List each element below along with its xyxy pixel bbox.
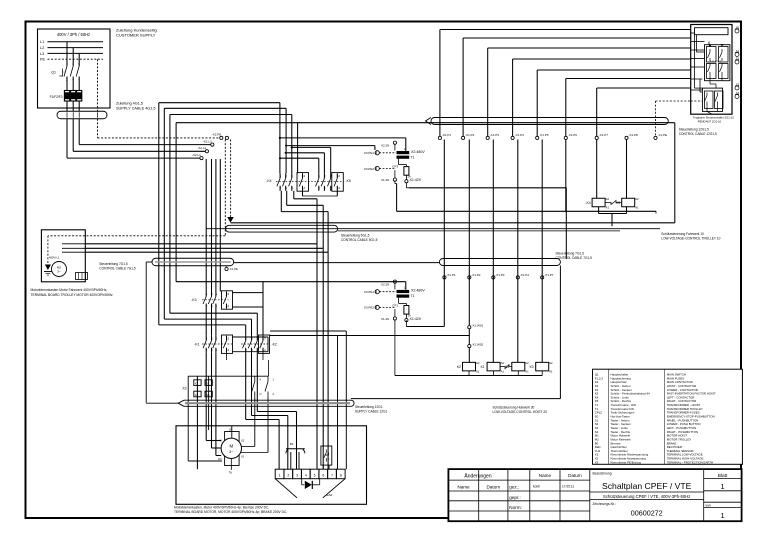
svg-text:-X1.P1: -X1.P1: [442, 133, 452, 137]
svg-text:2N: 2N: [229, 429, 232, 432]
svg-text:X3.PE1: X3.PE1: [364, 151, 375, 155]
svg-text:SUPPLY CABLE 12G1: SUPPLY CABLE 12G1: [355, 410, 388, 414]
svg-text:X3.PE2: X3.PE2: [364, 167, 375, 171]
svg-text:-K1: -K1: [194, 342, 199, 346]
svg-text:TN: TN: [229, 472, 233, 475]
svg-text:6: 6: [322, 473, 324, 477]
svg-text:CUSTOMER SUPPLY: CUSTOMER SUPPLY: [116, 33, 156, 38]
svg-text:SUPPLY CABLE 4G1,5: SUPPLY CABLE 4G1,5: [116, 107, 156, 111]
svg-text:400V / 3Ph / 50Hz: 400V / 3Ph / 50Hz: [57, 32, 90, 37]
svg-text:gez.:: gez.:: [509, 485, 519, 490]
svg-text:CONTROL CABLE 5G1,5: CONTROL CABLE 5G1,5: [341, 238, 378, 242]
svg-text:-X1.P6: -X1.P6: [568, 133, 578, 137]
svg-text:TERMINAL BOARD TROLLEY MOTOR: TERMINAL BOARD TROLLEY MOTOR 400V/3Ph/50…: [31, 293, 113, 297]
svg-text:Datum: Datum: [568, 473, 582, 478]
svg-text:-X1.P4: -X1.P4: [515, 133, 525, 137]
svg-text:17.05.11: 17.05.11: [562, 485, 574, 489]
svg-text:1: 1: [721, 482, 725, 491]
svg-text:-X1.W02: -X1.W02: [472, 342, 484, 346]
svg-text:von: von: [706, 504, 711, 508]
svg-text:14: 14: [337, 186, 341, 190]
svg-text:CP3: CP3: [392, 165, 398, 169]
svg-text:Steuerleitung 12G1: Steuerleitung 12G1: [355, 405, 383, 409]
svg-text:-X1.PE: -X1.PE: [658, 133, 668, 137]
svg-text:-K3: -K3: [191, 298, 196, 302]
svg-text:1: 1: [279, 473, 281, 477]
svg-text:X3.PE1: X3.PE1: [364, 290, 375, 294]
svg-text:A1: A1: [525, 369, 529, 373]
svg-text:-K5: -K5: [346, 179, 351, 183]
svg-text:LOW-VOLTAGE-CONTROL HOIST 20: LOW-VOLTAGE-CONTROL HOIST 20: [493, 410, 548, 414]
svg-text:-X1.P2: -X1.P2: [471, 273, 481, 277]
svg-text:7: 7: [331, 473, 333, 477]
svg-text:Steuerleitung 7G1,5: Steuerleitung 7G1,5: [556, 252, 585, 256]
svg-text:CP1: CP1: [392, 303, 398, 307]
svg-text:X1.2N: X1.2N: [381, 178, 389, 182]
svg-text:Name: Name: [457, 484, 470, 489]
svg-text:X2:480V: X2:480V: [411, 289, 425, 293]
svg-text:K1: K1: [481, 365, 485, 369]
svg-text:Klemmleiste PE/Erdung: Klemmleiste PE/Erdung: [611, 460, 642, 464]
svg-text:L2: L2: [40, 46, 44, 50]
svg-text:3: 3: [296, 473, 298, 477]
svg-text:Zeichnungs-Nr.:: Zeichnungs-Nr.:: [593, 502, 616, 506]
svg-text:A1: A1: [635, 205, 639, 209]
svg-text:B1: B1: [290, 442, 294, 446]
svg-text:-EA0: -EA0: [326, 493, 333, 497]
svg-text:Schützsteuerung CPEF / VTE, 40: Schützsteuerung CPEF / VTE, 400V-3Ph-50H…: [603, 494, 690, 499]
svg-text:A2: A2: [635, 197, 639, 201]
svg-text:1A: 1A: [408, 314, 411, 318]
svg-text:13: 13: [302, 174, 306, 178]
svg-text:A1: A1: [501, 369, 505, 373]
svg-text:-X2.PE: -X2.PE: [212, 133, 222, 137]
svg-text:-X1.P7: -X1.P7: [599, 133, 609, 137]
svg-text:-X2.L3: -X2.L3: [203, 139, 212, 143]
svg-text:N: N: [260, 392, 262, 396]
svg-text:5: 5: [314, 473, 316, 477]
svg-text:14: 14: [226, 304, 230, 308]
svg-text:F1/F2/F3: F1/F2/F3: [50, 95, 63, 99]
svg-text:Bezeichnung: Bezeichnung: [593, 472, 612, 476]
svg-text:14: 14: [302, 186, 306, 190]
svg-text:A2: A2: [549, 361, 553, 365]
svg-text:X1:42V: X1:42V: [410, 178, 422, 182]
svg-text:Motorklemmkasten Motor Fahrwer: Motorklemmkasten Motor Fahrwerk 400V/3Ph…: [31, 288, 108, 292]
svg-text:-X1.PE: -X1.PE: [229, 267, 238, 271]
svg-text:00600272: 00600272: [631, 508, 663, 517]
svg-text:A2: A2: [501, 361, 505, 365]
svg-text:-X1.P4: -X1.P4: [520, 273, 530, 277]
svg-text:X2.2N: X2.2N: [381, 144, 389, 148]
svg-text:X3: X3: [595, 460, 599, 464]
svg-text:-X1.P7: -X1.P7: [544, 273, 554, 277]
svg-text:4: 4: [305, 473, 307, 477]
svg-text:T1: T1: [411, 294, 415, 298]
svg-text:TERMINAL - PROTECTION EARTH: TERMINAL - PROTECTION EARTH: [667, 460, 714, 464]
svg-text:Norm:: Norm:: [509, 505, 522, 510]
svg-text:A2: A2: [476, 361, 480, 365]
svg-text:-K4: -K4: [585, 201, 590, 205]
svg-text:X2.2N: X2.2N: [381, 282, 389, 286]
svg-text:3~: 3~: [229, 450, 234, 454]
svg-text:8: 8: [340, 473, 342, 477]
svg-text:A2: A2: [525, 361, 529, 365]
svg-text:Steuerleitung 5G1,5: Steuerleitung 5G1,5: [341, 233, 370, 237]
svg-text:konb: konb: [533, 485, 540, 489]
svg-text:Steuerleitung 7G1,5: Steuerleitung 7G1,5: [99, 262, 128, 266]
svg-text:Steuerleitung 12G1,5: Steuerleitung 12G1,5: [679, 128, 709, 132]
svg-text:LOW-VOLTAGE-CONTROL TROLLEY 10: LOW-VOLTAGE-CONTROL TROLLEY 10: [661, 236, 720, 240]
svg-text:M: M: [229, 444, 233, 449]
svg-text:3~: 3~: [57, 270, 61, 274]
svg-text:X1.2N: X1.2N: [381, 317, 389, 321]
svg-text:X1:42V: X1:42V: [410, 317, 422, 321]
svg-text:CONTROL CABLE 7G1,5: CONTROL CABLE 7G1,5: [99, 267, 136, 271]
svg-text:13: 13: [337, 174, 341, 178]
svg-text:A1: A1: [549, 369, 553, 373]
svg-text:PENDANT 2G1-10: PENDANT 2G1-10: [698, 120, 722, 124]
svg-text:L1: L1: [40, 40, 44, 44]
svg-text:X3: X3: [182, 387, 186, 391]
svg-text:TERMINAL BOARD MOTOR, MOTOR 40: TERMINAL BOARD MOTOR, MOTOR 400V/3Ph/50H…: [174, 510, 287, 514]
svg-text:-K4: -K4: [266, 179, 271, 183]
svg-text:Datum: Datum: [487, 484, 501, 489]
svg-text:A2: A2: [606, 197, 610, 201]
svg-text:-X1.P2: -X1.P2: [465, 133, 475, 137]
svg-text:Motorklemmkasten, Motor 400V/3: Motorklemmkasten, Motor 400V/3Ph/50Hz-4p…: [174, 505, 269, 509]
svg-text:X2:480V: X2:480V: [411, 150, 425, 154]
svg-text:Änderungen: Änderungen: [464, 473, 491, 480]
svg-text:14: 14: [226, 348, 230, 352]
svg-text:PE: PE: [40, 58, 46, 62]
svg-text:1: 1: [721, 511, 725, 520]
svg-text:Schaltplan CPEF / VTE: Schaltplan CPEF / VTE: [602, 481, 692, 491]
svg-text:-X1.W01: -X1.W01: [472, 324, 484, 328]
svg-text:Name: Name: [539, 473, 552, 478]
svg-text:-K2: -K2: [272, 342, 277, 346]
svg-text:13: 13: [226, 336, 230, 340]
svg-text:1A: 1A: [408, 175, 411, 179]
svg-text:A1: A1: [476, 369, 480, 373]
svg-text:A1: A1: [606, 205, 610, 209]
svg-text:-X2.L1: -X2.L1: [192, 153, 201, 157]
svg-text:-X1.P3: -X1.P3: [495, 273, 505, 277]
svg-text:-X2.L2: -X2.L2: [197, 146, 206, 150]
svg-text:400V/ L1: 400V/ L1: [49, 255, 60, 259]
svg-text:Schützsteuerung Fahrwerk 10: Schützsteuerung Fahrwerk 10: [661, 232, 704, 236]
svg-text:K0: K0: [530, 365, 534, 369]
svg-text:CONTROL CABLE 7G1,5: CONTROL CABLE 7G1,5: [556, 256, 593, 260]
svg-text:-X1.P1: -X1.P1: [446, 273, 456, 277]
svg-text:-X1.P8: -X1.P8: [629, 133, 639, 137]
svg-text:Schützsteuerung Hubwerk 30: Schützsteuerung Hubwerk 30: [493, 405, 535, 409]
svg-text:CONTROL CABLE 12G1,5: CONTROL CABLE 12G1,5: [679, 132, 717, 136]
svg-text:X3.PE2: X3.PE2: [364, 306, 375, 310]
svg-text:T1: T1: [411, 155, 415, 159]
svg-text:-X1.P3: -X1.P3: [490, 133, 500, 137]
svg-text:13: 13: [226, 292, 230, 296]
svg-text:L3: L3: [40, 52, 44, 56]
svg-text:W2: W2: [218, 458, 222, 461]
svg-text:Q1: Q1: [51, 71, 56, 75]
svg-text:gepr.:: gepr.:: [509, 495, 521, 500]
svg-text:Zuleitung 4G1,5: Zuleitung 4G1,5: [116, 102, 143, 106]
svg-text:Blatt: Blatt: [718, 473, 728, 479]
svg-text:-X1.P5: -X1.P5: [539, 133, 549, 137]
svg-text:2: 2: [287, 473, 289, 477]
svg-text:K2: K2: [457, 365, 461, 369]
